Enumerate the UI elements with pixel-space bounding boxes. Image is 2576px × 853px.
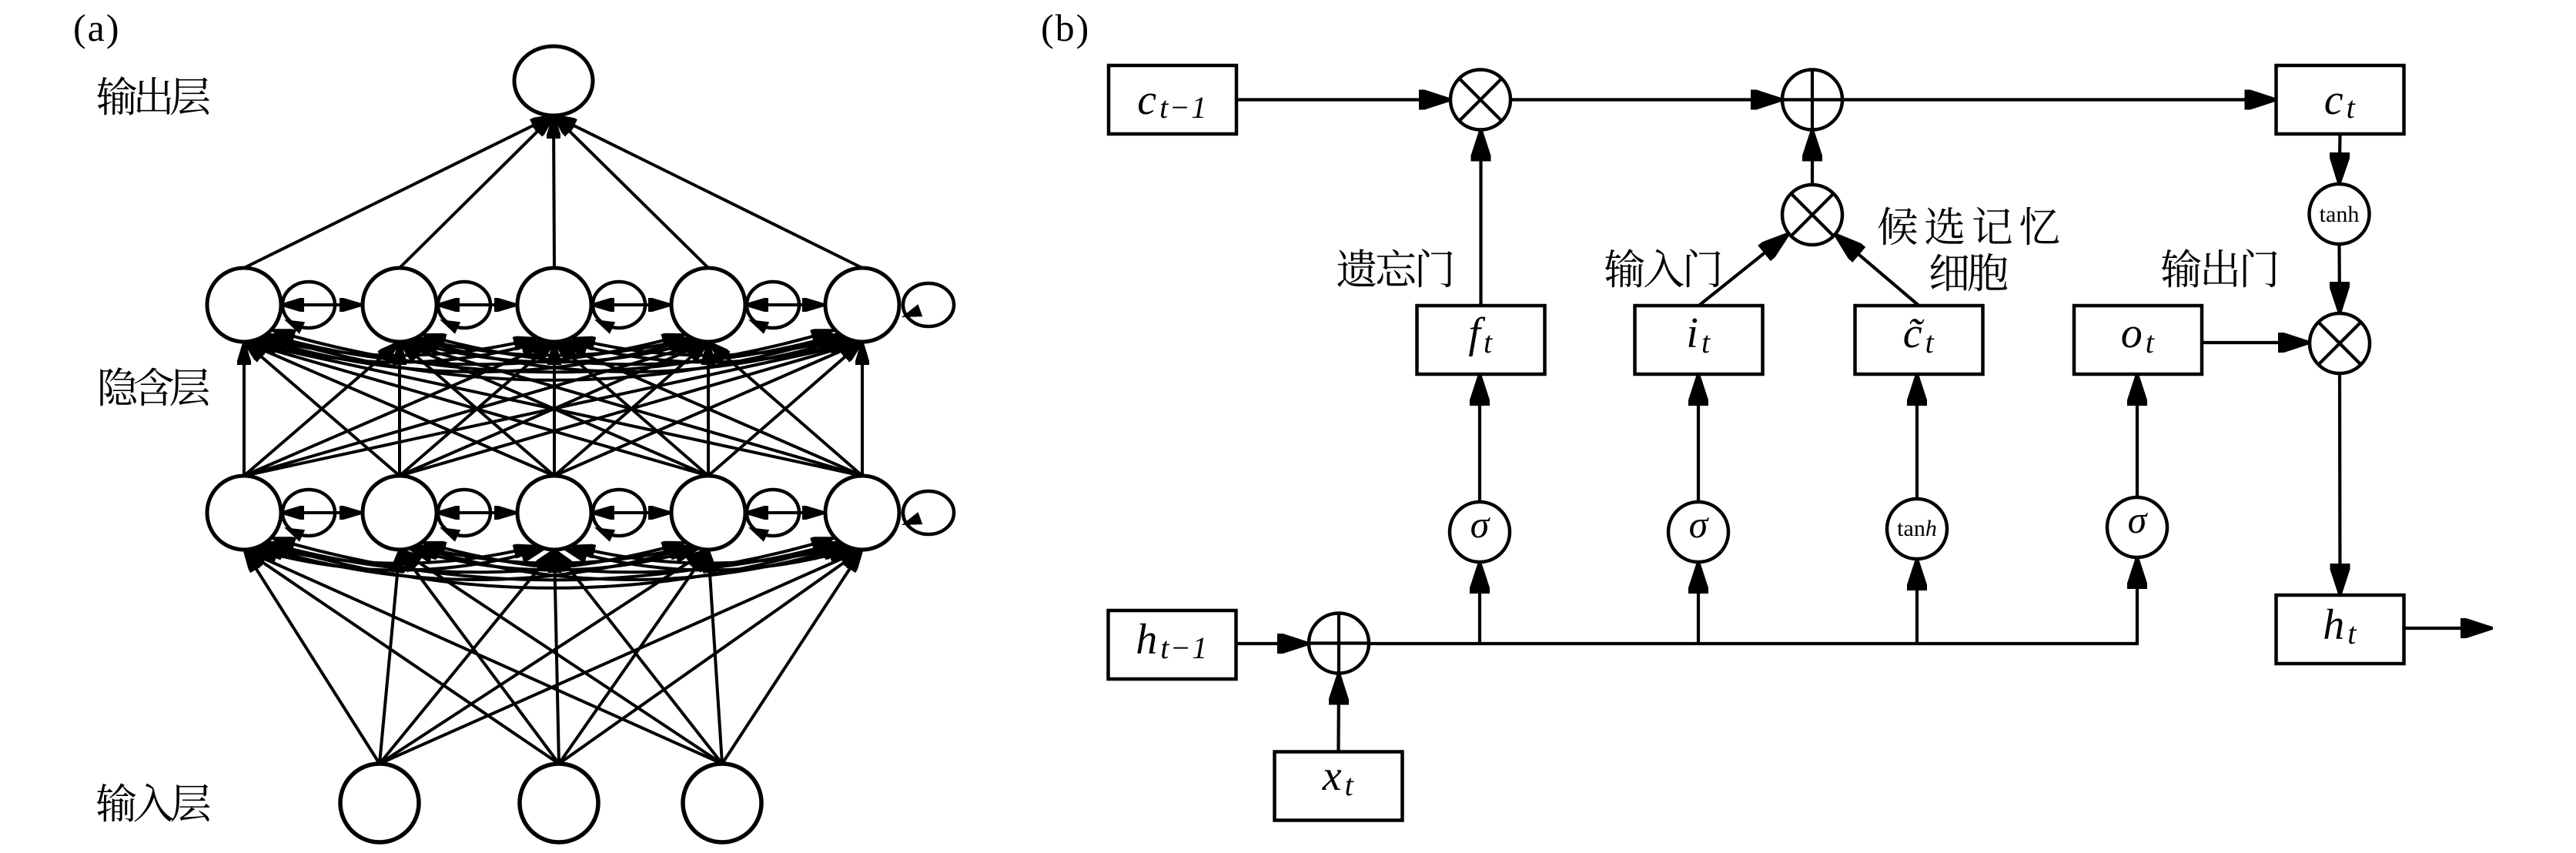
svg-text:(b): (b) (1041, 6, 1090, 49)
svg-text:tanh: tanh (1897, 516, 1937, 541)
svg-text:σ: σ (1689, 503, 1710, 546)
svg-text:σ: σ (1470, 503, 1491, 546)
svg-text:tanh: tanh (2320, 202, 2360, 227)
svg-text:(a): (a) (73, 6, 121, 49)
svg-text:σ: σ (2128, 498, 2149, 541)
